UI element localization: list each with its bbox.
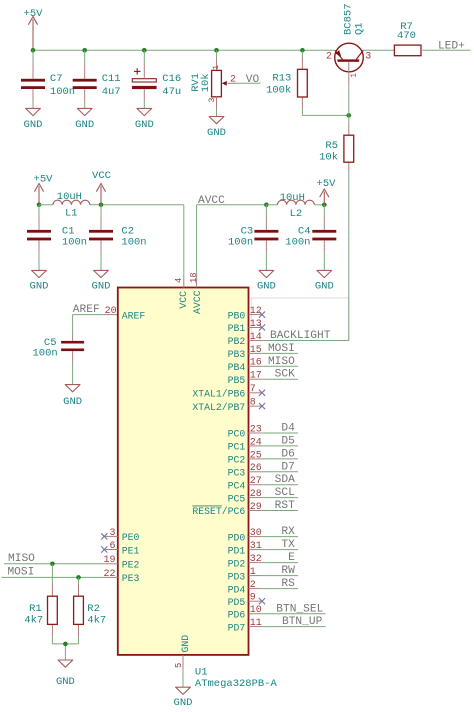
wire L1 to VCC node — [90, 204, 184, 206]
svg-text:PD1: PD1 — [228, 545, 246, 556]
resistor R13 body — [298, 69, 308, 97]
wire AREF — [73, 315, 105, 331]
wire RV1 to GND — [216, 109, 218, 117]
svg-text:D4: D4 — [281, 423, 295, 435]
junction +5V/C1/L1 — [37, 203, 42, 208]
svg-text:8: 8 — [250, 398, 256, 409]
svg-text:PD3: PD3 — [228, 571, 246, 582]
svg-text:L1: L1 — [65, 207, 78, 219]
wire PE3 to MOSI — [2, 576, 105, 578]
svg-text:RST: RST — [275, 500, 295, 512]
svg-text:PE1: PE1 — [122, 545, 140, 556]
svg-text:20: 20 — [105, 306, 117, 317]
pin 15 stub (PB3) — [249, 352, 262, 354]
svg-text:PE0: PE0 — [122, 532, 140, 543]
svg-text:7: 7 — [250, 384, 256, 395]
pin 23 stub (PC0) — [249, 432, 262, 434]
wire pin 26 to D7 — [262, 471, 298, 473]
wire pin 29 to RST — [262, 510, 298, 512]
pin 9 stub (PD5) — [249, 600, 262, 602]
svg-text:100n: 100n — [32, 348, 57, 360]
svg-text:PB1: PB1 — [228, 323, 246, 334]
pin 26 stub (PC3) — [249, 471, 262, 473]
ground (C11) — [75, 108, 94, 131]
svg-text:PB3: PB3 — [228, 349, 246, 360]
no-connect X (pin 3) — [101, 533, 107, 539]
pin 13 stub (PB1) — [249, 327, 262, 329]
svg-text:BACKLIGHT: BACKLIGHT — [270, 330, 331, 342]
svg-text:12: 12 — [250, 306, 262, 317]
wire R7 to LED+ — [421, 49, 471, 51]
svg-text:PD7: PD7 — [228, 622, 246, 633]
wire MISO to R1 — [51, 564, 53, 584]
wire pin 17 to SCK — [262, 378, 298, 380]
svg-text:100n: 100n — [62, 237, 87, 249]
svg-text:4k7: 4k7 — [24, 615, 43, 627]
wire MOSI to R2 — [78, 577, 80, 584]
svg-text:BTN_SEL: BTN_SEL — [276, 603, 323, 615]
pin 4 (VCC) — [183, 274, 185, 287]
wire pin 32 to E — [262, 562, 298, 564]
power VCC flag — [92, 170, 111, 205]
svg-text:16: 16 — [250, 358, 262, 369]
pin 27 stub (PC4) — [249, 484, 262, 486]
wire Q1 collector to R7 — [363, 49, 394, 51]
capacitor C3 — [254, 205, 278, 271]
pin 25 stub (PC2) — [249, 458, 262, 460]
svg-text:PC5: PC5 — [228, 493, 246, 504]
power +5V flag (AVCC filter) — [317, 178, 337, 205]
wire pin 11 to BTN_UP — [262, 626, 326, 628]
junction top rail at RV1 — [214, 48, 219, 53]
svg-text:PD2: PD2 — [228, 558, 246, 569]
resistor R13 pin stubs — [301, 57, 303, 69]
wire pin 25 to D6 — [262, 458, 298, 460]
svg-text:C16: C16 — [162, 73, 181, 85]
pin 31 stub (PD1) — [249, 549, 262, 551]
junction top rail at R13 — [300, 48, 305, 53]
svg-text:30: 30 — [250, 528, 262, 539]
no-connect X (pin 7) — [259, 390, 265, 396]
svg-text:D5: D5 — [281, 435, 294, 447]
pin 11 stub (PD7) — [249, 626, 262, 628]
svg-text:2: 2 — [326, 52, 332, 63]
svg-text:27: 27 — [250, 476, 262, 487]
svg-text:PC2: PC2 — [228, 455, 246, 466]
svg-text:GND: GND — [75, 119, 94, 131]
node BACKLIGHT highlight box — [251, 298, 348, 341]
svg-text:14: 14 — [250, 332, 262, 343]
svg-text:28: 28 — [250, 489, 262, 500]
ground (RV1) — [207, 117, 226, 139]
svg-text:10: 10 — [250, 605, 262, 616]
svg-text:XTAL1/PB6: XTAL1/PB6 — [192, 389, 245, 400]
svg-text:PD5: PD5 — [228, 597, 246, 608]
pin 18 (AVCC) — [196, 274, 198, 287]
junction base node — [347, 113, 352, 118]
svg-text:100n: 100n — [228, 237, 253, 249]
svg-text:PB2: PB2 — [228, 336, 246, 347]
inductor L2 — [278, 200, 315, 205]
svg-text:MOSI: MOSI — [268, 343, 295, 355]
svg-text:SDA: SDA — [275, 474, 295, 486]
svg-text:1: 1 — [211, 65, 221, 70]
capacitor C1 — [27, 205, 51, 271]
svg-text:RESET/PC6: RESET/PC6 — [192, 506, 245, 517]
pin 17 stub (PB5) — [249, 378, 262, 380]
svg-text:L2: L2 — [290, 208, 303, 220]
junction top rail at C11 — [82, 48, 87, 53]
svg-text:R13: R13 — [272, 73, 291, 85]
pin 1 stub (PD3) — [249, 575, 262, 577]
svg-text:PD6: PD6 — [228, 610, 246, 621]
svg-text:GND: GND — [180, 635, 191, 653]
trimmer RV1 wiper arrow — [222, 81, 227, 86]
power +5V flag (VCC filter) — [34, 173, 54, 205]
wire rail to RV1 — [216, 50, 218, 58]
resistor R7 body — [394, 45, 421, 56]
pin 20 stub (AREF) — [104, 314, 118, 316]
ground (C1) — [30, 270, 49, 292]
inductor L1 — [53, 200, 90, 205]
svg-text:GND: GND — [56, 676, 75, 688]
junction top rail at C16 — [142, 48, 147, 53]
svg-text:PC0: PC0 — [228, 429, 246, 440]
wire pin 24 to D5 — [262, 445, 298, 447]
wire pin 14 to BACKLIGHT net — [262, 340, 349, 342]
pin 24 stub (PC1) — [249, 445, 262, 447]
svg-text:VCC: VCC — [178, 291, 189, 309]
ground (C5) — [63, 385, 82, 409]
junction +5V/C4/L2 — [322, 203, 327, 208]
ground (C2) — [92, 270, 111, 292]
svg-text:100n: 100n — [285, 237, 310, 249]
svg-text:10uH: 10uH — [280, 192, 305, 204]
ground (C7) — [24, 108, 43, 131]
svg-text:R5: R5 — [325, 140, 338, 152]
wire +5V to L1 — [39, 204, 53, 206]
svg-text:AREF: AREF — [73, 304, 100, 316]
pin 5 (GND) — [182, 655, 184, 668]
ground (C4) — [315, 270, 334, 292]
pin 16 stub (PB4) — [249, 365, 262, 367]
svg-text:LED+: LED+ — [438, 40, 465, 52]
pin 29 stub (RESET/PC6) — [249, 510, 262, 512]
svg-text:RW: RW — [281, 565, 295, 577]
svg-text:1: 1 — [250, 567, 256, 578]
svg-text:E: E — [288, 552, 295, 564]
capacitor C11 — [73, 50, 97, 108]
transistor Q1 (BC857) — [335, 43, 364, 85]
trimmer RV1 body — [212, 70, 222, 96]
wire R1/R2 to GND — [52, 637, 78, 661]
svg-text:9: 9 — [250, 593, 256, 604]
pin 6 stub (PE1) — [104, 549, 118, 551]
svg-text:24: 24 — [250, 437, 262, 448]
svg-text:MISO: MISO — [268, 356, 295, 368]
wire pin 31 to TX — [262, 549, 298, 551]
svg-text:R2: R2 — [87, 603, 100, 615]
svg-text:AREF: AREF — [122, 310, 146, 321]
svg-text:C7: C7 — [50, 73, 63, 85]
svg-text:PB4: PB4 — [228, 362, 246, 373]
ground (U1 pin5) — [174, 687, 193, 709]
pin 3 stub (PE0) — [104, 535, 118, 537]
svg-text:PD4: PD4 — [228, 584, 246, 595]
no-connect X (pin 9) — [259, 598, 265, 604]
wire pin 10 to BTN_SEL — [262, 613, 326, 615]
wire C3 to L2 — [266, 204, 277, 206]
svg-text:SCL: SCL — [275, 487, 295, 499]
svg-text:2: 2 — [250, 580, 256, 591]
wire L2 to +5V node — [314, 204, 324, 206]
wire VCC down to pin 4 — [183, 205, 185, 274]
svg-text:GND: GND — [257, 281, 276, 293]
svg-text:VCC: VCC — [92, 170, 111, 182]
svg-text:22: 22 — [103, 569, 115, 580]
no-connect X (pin 6) — [101, 546, 107, 552]
svg-text:PC3: PC3 — [228, 468, 246, 479]
svg-text:D6: D6 — [281, 448, 294, 460]
svg-text:D7: D7 — [281, 461, 294, 473]
pin 12 stub (PB0) — [249, 314, 262, 316]
pin 8 stub (XTAL2/PB7) — [249, 405, 262, 407]
svg-text:+5V: +5V — [24, 8, 44, 20]
svg-text:3: 3 — [207, 98, 217, 103]
pin 2 stub (PD4) — [249, 588, 262, 590]
junction AVCC/C3/L2 — [264, 203, 269, 208]
junction MISO/R1 — [50, 562, 55, 567]
wire PE2 to MISO — [4, 563, 104, 565]
capacitor C2 — [89, 205, 113, 271]
capacitor C16 (polarized) — [132, 50, 157, 108]
resistor R5 body — [344, 135, 354, 162]
junction R1/R2 GND — [63, 642, 68, 647]
svg-text:SCK: SCK — [275, 369, 295, 381]
svg-text:GND: GND — [135, 119, 154, 131]
svg-text:470: 470 — [397, 30, 416, 42]
svg-text:Q1: Q1 — [354, 22, 366, 35]
svg-text:GND: GND — [30, 281, 49, 293]
resistor R2 pin stubs — [78, 584, 80, 596]
wire pin 27 to SDA — [262, 484, 298, 486]
svg-text:XTAL2/PB7: XTAL2/PB7 — [192, 402, 245, 413]
svg-text:PB0: PB0 — [228, 310, 246, 321]
svg-text:18: 18 — [189, 272, 199, 283]
svg-text:10k: 10k — [319, 151, 338, 163]
resistor R2 body — [74, 596, 84, 624]
svg-text:4k7: 4k7 — [87, 615, 106, 627]
svg-text:U1: U1 — [195, 666, 208, 678]
wire pin 2 to RS — [262, 588, 298, 590]
wire pin 1 to RW — [262, 575, 298, 577]
svg-text:2: 2 — [230, 74, 236, 85]
svg-text:5: 5 — [174, 663, 184, 668]
wire pin 16 to MISO — [262, 365, 298, 367]
svg-text:AVCC: AVCC — [192, 290, 203, 314]
pin 22 stub (PE3) — [104, 576, 118, 578]
trimmer RV1 pin1 stub — [216, 58, 218, 70]
ground (R1/R2) — [56, 660, 75, 688]
wire pin5 to GND — [182, 668, 184, 687]
svg-text:13: 13 — [250, 319, 262, 330]
capacitor C7 — [21, 50, 45, 108]
pin 19 stub (PE2) — [104, 563, 118, 565]
svg-text:19: 19 — [103, 555, 115, 566]
svg-text:100n: 100n — [50, 86, 75, 98]
wire pin 23 to D4 — [262, 432, 298, 434]
pin 30 stub (PD0) — [249, 536, 262, 538]
svg-text:6: 6 — [109, 541, 115, 552]
wire AVCC up and right — [197, 205, 267, 274]
wire +5V top rail — [33, 49, 335, 51]
wire pin 28 to SCL — [262, 497, 298, 499]
svg-text:GND: GND — [315, 281, 334, 293]
svg-text:31: 31 — [250, 541, 262, 552]
svg-text:GND: GND — [92, 281, 111, 293]
wire base node to R5 — [348, 115, 350, 123]
svg-text:RX: RX — [281, 526, 295, 538]
pin 32 stub (PD2) — [249, 562, 262, 564]
capacitor C4 — [312, 205, 336, 271]
svg-text:23: 23 — [250, 424, 262, 435]
svg-text:3: 3 — [109, 528, 115, 539]
junction MOSI/R2 — [76, 575, 81, 580]
junction top rail at C7 — [31, 48, 36, 53]
ground (C3) — [257, 270, 276, 292]
svg-text:11: 11 — [250, 618, 262, 629]
op-amp U1 body (ATmega328PB-A) — [118, 288, 249, 655]
resistor R1 body — [48, 596, 58, 624]
no-connect X (pin 8) — [259, 403, 265, 409]
svg-text:29: 29 — [250, 502, 262, 513]
svg-text:MOSI: MOSI — [7, 566, 34, 578]
svg-text:BTN_UP: BTN_UP — [282, 616, 323, 628]
svg-text:GND: GND — [63, 396, 82, 408]
svg-text:1: 1 — [350, 73, 359, 78]
svg-text:4u7: 4u7 — [102, 86, 121, 98]
svg-text:10uH: 10uH — [57, 191, 82, 203]
pin 14 stub (PB2) — [249, 340, 262, 342]
svg-text:17: 17 — [250, 371, 262, 382]
svg-text:VO: VO — [246, 74, 260, 86]
svg-text:100k: 100k — [266, 84, 291, 96]
svg-text:25: 25 — [250, 450, 262, 461]
svg-text:26: 26 — [250, 463, 262, 474]
power +5V flag (top rail) — [24, 8, 44, 50]
svg-text:MISO: MISO — [8, 553, 35, 565]
svg-text:C11: C11 — [102, 73, 121, 85]
wire R13 to base node — [302, 109, 348, 115]
junction VCC node — [99, 203, 104, 208]
svg-text:GND: GND — [207, 127, 226, 139]
resistor R5 pin stubs — [348, 123, 350, 135]
svg-text:3: 3 — [365, 51, 371, 62]
svg-text:R1: R1 — [29, 603, 42, 615]
wire rail to R13 — [301, 50, 303, 57]
wire pin 15 to MOSI — [262, 352, 298, 354]
ground (C16) — [135, 108, 154, 131]
svg-text:ATmega328PB-A: ATmega328PB-A — [195, 678, 278, 690]
svg-text:PE3: PE3 — [122, 573, 140, 584]
trimmer RV1 pin3 stub — [216, 97, 218, 109]
svg-text:RS: RS — [281, 578, 295, 590]
svg-text:32: 32 — [250, 554, 262, 565]
svg-text:PE2: PE2 — [122, 560, 140, 571]
svg-text:PC1: PC1 — [228, 442, 246, 453]
no-connect X (pin 12) — [259, 312, 265, 318]
resistor R1 pin stubs — [51, 584, 53, 596]
wire R5 down to BACKLIGHT net — [348, 172, 350, 341]
svg-text:PD0: PD0 — [228, 532, 246, 543]
wire pin 30 to RX — [262, 536, 298, 538]
svg-text:15: 15 — [250, 345, 262, 356]
pin 7 stub (XTAL1/PB6) — [249, 392, 262, 394]
svg-text:TX: TX — [281, 539, 295, 551]
wire RV1 wiper to VO — [237, 82, 261, 84]
svg-text:100n: 100n — [121, 237, 146, 249]
pin 28 stub (PC5) — [249, 497, 262, 499]
svg-text:PB5: PB5 — [228, 375, 246, 386]
svg-text:GND: GND — [174, 697, 193, 709]
svg-text:+5V: +5V — [317, 178, 337, 190]
svg-text:AVCC: AVCC — [198, 195, 225, 207]
svg-text:PC4: PC4 — [228, 480, 246, 491]
svg-text:GND: GND — [24, 119, 43, 131]
svg-text:+5V: +5V — [34, 173, 54, 185]
wire Q1 base down — [348, 85, 350, 115]
pin 10 stub (PD6) — [249, 613, 262, 615]
svg-text:4: 4 — [174, 278, 184, 283]
no-connect X (pin 13) — [259, 324, 265, 330]
svg-text:10k: 10k — [200, 73, 212, 92]
svg-text:47u: 47u — [162, 86, 181, 98]
capacitor C5 — [61, 331, 84, 385]
